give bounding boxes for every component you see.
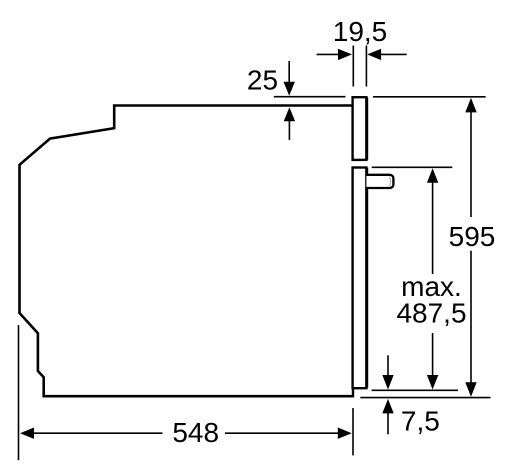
svg-text:7,5: 7,5 (401, 406, 440, 437)
svg-text:595: 595 (449, 221, 496, 252)
svg-text:487,5: 487,5 (396, 298, 466, 329)
svg-text:19,5: 19,5 (333, 16, 388, 47)
svg-text:548: 548 (172, 417, 219, 448)
svg-text:25: 25 (247, 65, 278, 96)
